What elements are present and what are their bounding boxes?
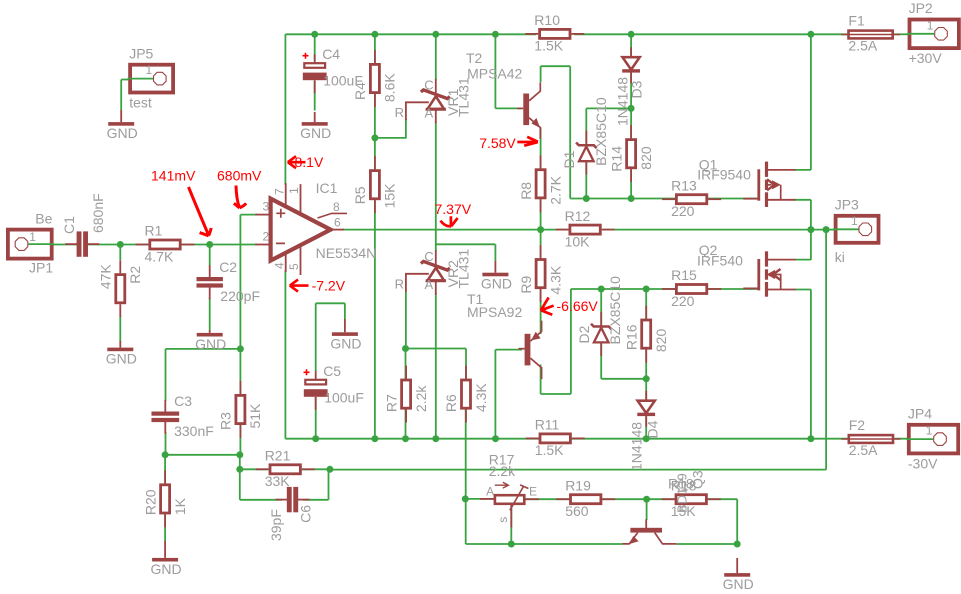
svg-text:3: 3	[263, 200, 270, 214]
svg-text:7: 7	[272, 188, 286, 195]
svg-text:1: 1	[927, 18, 934, 32]
svg-text:D1: D1	[561, 150, 577, 168]
svg-text:A: A	[425, 105, 434, 120]
svg-text:820: 820	[653, 329, 669, 353]
svg-text:+30V: +30V	[909, 50, 943, 66]
svg-text:39pF: 39pF	[268, 509, 284, 541]
svg-text:15K: 15K	[382, 183, 398, 209]
svg-text:IRF540: IRF540	[697, 253, 743, 269]
svg-text:R: R	[395, 276, 404, 291]
svg-text:4: 4	[272, 262, 286, 269]
svg-text:R: R	[395, 105, 404, 120]
svg-text:-6.66V: -6.66V	[557, 298, 599, 314]
svg-text:GND: GND	[106, 351, 137, 367]
svg-text:R7: R7	[383, 394, 399, 412]
svg-text:2: 2	[263, 230, 270, 244]
svg-text:C: C	[424, 249, 433, 264]
svg-text:TL431: TL431	[456, 77, 472, 117]
svg-text:-30V: -30V	[908, 455, 938, 471]
svg-text:33K: 33K	[265, 473, 291, 489]
svg-text:141mV: 141mV	[151, 168, 196, 184]
svg-text:1: 1	[851, 214, 858, 228]
svg-text:47K: 47K	[98, 264, 114, 290]
svg-text:A: A	[486, 485, 494, 499]
svg-text:C: C	[424, 78, 433, 93]
svg-text:R20: R20	[142, 489, 158, 515]
svg-text:C5: C5	[323, 363, 341, 379]
svg-text:R15: R15	[671, 267, 697, 283]
svg-text:R10: R10	[534, 12, 560, 28]
svg-text:GND: GND	[107, 125, 138, 141]
svg-text:100uF: 100uF	[323, 73, 363, 89]
svg-text:2.5A: 2.5A	[848, 38, 877, 54]
svg-text:1: 1	[926, 424, 933, 438]
svg-text:-7.2V: -7.2V	[312, 278, 346, 294]
svg-text:680mV: 680mV	[217, 168, 262, 184]
svg-text:C2: C2	[219, 259, 237, 275]
svg-text:R2: R2	[127, 266, 143, 284]
svg-text:GND: GND	[195, 336, 226, 352]
svg-text:test: test	[129, 94, 152, 110]
svg-text:1.5K: 1.5K	[534, 38, 563, 54]
svg-text:C3: C3	[174, 393, 192, 409]
svg-text:2.7K: 2.7K	[547, 175, 563, 204]
svg-text:R16: R16	[623, 324, 639, 350]
svg-text:Q3: Q3	[690, 470, 706, 489]
svg-text:C6: C6	[298, 505, 314, 523]
svg-text:2.2k: 2.2k	[413, 385, 429, 412]
svg-text:A: A	[425, 277, 434, 292]
svg-text:220pF: 220pF	[220, 288, 260, 304]
svg-text:s: s	[496, 517, 510, 523]
svg-text:820: 820	[638, 146, 654, 170]
svg-text:TL431: TL431	[456, 249, 472, 289]
svg-text:330nF: 330nF	[174, 423, 214, 439]
svg-text:220: 220	[671, 293, 695, 309]
svg-text:R19: R19	[565, 477, 591, 493]
svg-text:1: 1	[29, 230, 36, 244]
svg-text:ki: ki	[835, 249, 845, 265]
svg-text:R6: R6	[443, 394, 459, 412]
svg-text:JP4: JP4	[908, 405, 932, 421]
svg-text:R3: R3	[218, 412, 234, 430]
svg-text:C1: C1	[61, 216, 77, 234]
svg-text:1: 1	[146, 63, 153, 77]
svg-text:JP5: JP5	[129, 45, 153, 61]
svg-text:MPSA42: MPSA42	[467, 66, 522, 82]
svg-text:JP3: JP3	[835, 196, 859, 212]
svg-text:GND: GND	[481, 276, 512, 292]
svg-text:GND: GND	[300, 125, 331, 141]
svg-text:7.58V: 7.58V	[479, 135, 516, 151]
svg-text:1.5K: 1.5K	[535, 442, 564, 458]
svg-text:4.3K: 4.3K	[547, 265, 563, 294]
svg-text:220: 220	[671, 203, 695, 219]
svg-text:5: 5	[287, 263, 301, 270]
svg-text:NE5534N: NE5534N	[316, 245, 377, 261]
svg-text:E: E	[529, 485, 537, 499]
svg-text:IRF9540: IRF9540	[697, 166, 751, 182]
svg-text:6: 6	[334, 216, 341, 230]
svg-text:R21: R21	[265, 448, 291, 464]
svg-text:R13: R13	[671, 177, 697, 193]
svg-text:GND: GND	[330, 335, 361, 351]
svg-text:BZX85C10: BZX85C10	[593, 97, 609, 166]
svg-text:D2: D2	[576, 325, 592, 343]
svg-text:IC1: IC1	[316, 180, 338, 196]
svg-text:MPSA92: MPSA92	[467, 304, 522, 320]
svg-text:4.3K: 4.3K	[473, 383, 489, 412]
svg-text:1N4148: 1N4148	[628, 422, 644, 471]
svg-text:T2: T2	[466, 50, 483, 66]
svg-text:8: 8	[333, 200, 340, 214]
svg-text:R1: R1	[145, 223, 163, 239]
svg-text:F2: F2	[849, 417, 866, 433]
svg-text:R5: R5	[352, 186, 368, 204]
svg-text:1K: 1K	[172, 497, 188, 515]
svg-text:2.2k: 2.2k	[489, 463, 516, 479]
svg-text:10K: 10K	[565, 233, 591, 249]
svg-text:R8: R8	[518, 182, 534, 200]
svg-text:D3: D3	[629, 80, 645, 98]
svg-text:GND: GND	[151, 561, 182, 577]
svg-text:560: 560	[565, 503, 589, 519]
svg-text:R12: R12	[565, 208, 591, 224]
svg-text:GND: GND	[723, 576, 754, 592]
svg-text:C4: C4	[322, 46, 340, 62]
svg-text:JP1: JP1	[29, 260, 53, 276]
svg-text:BD139: BD139	[675, 473, 690, 513]
svg-text:51K: 51K	[247, 403, 263, 429]
svg-text:R11: R11	[535, 417, 560, 433]
svg-text:R9: R9	[518, 275, 534, 293]
svg-text:1: 1	[287, 187, 301, 194]
svg-text:680nF: 680nF	[90, 193, 106, 233]
svg-text:JP2: JP2	[909, 0, 933, 16]
svg-text:7.37V: 7.37V	[435, 201, 472, 217]
svg-text:Be: Be	[35, 210, 52, 226]
svg-text:2.5A: 2.5A	[849, 442, 878, 458]
svg-text:8.6K: 8.6K	[382, 73, 398, 102]
svg-text:4.7K: 4.7K	[145, 248, 174, 264]
svg-text:BZX85C10: BZX85C10	[607, 276, 623, 345]
svg-text:100uF: 100uF	[324, 389, 364, 405]
svg-text:F1: F1	[848, 13, 865, 29]
svg-text:R14: R14	[608, 146, 624, 172]
